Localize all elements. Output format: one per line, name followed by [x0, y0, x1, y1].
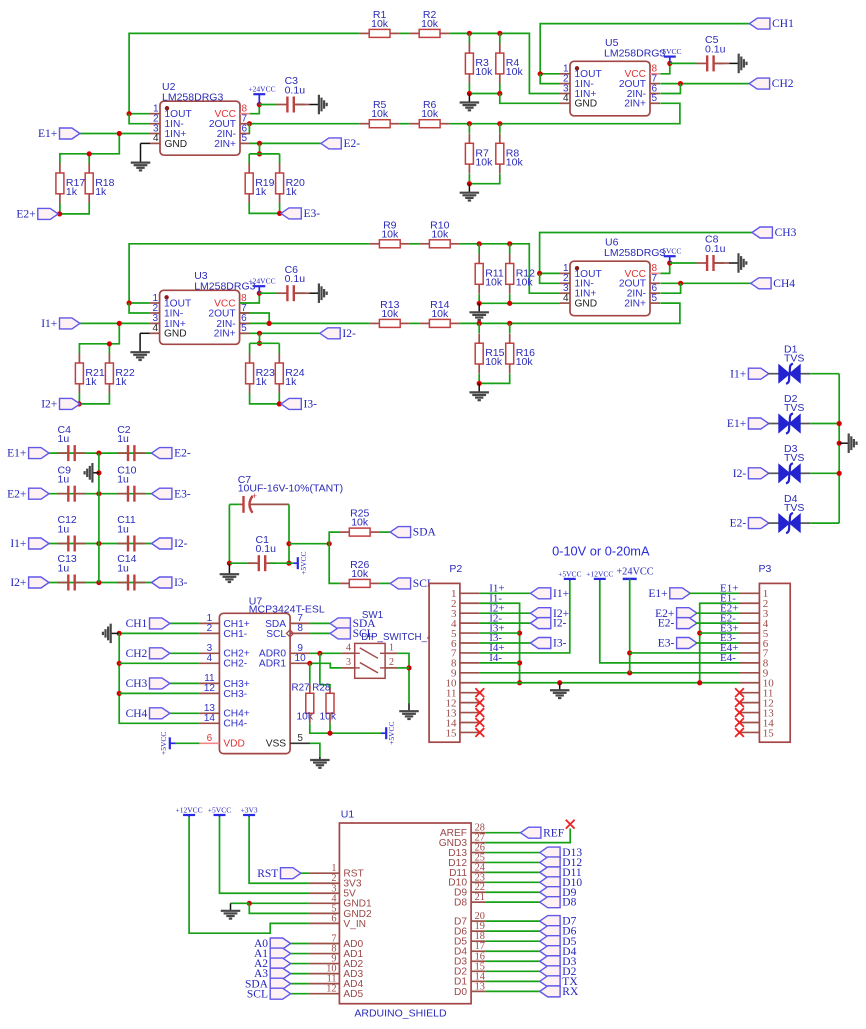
svg-text:VSS: VSS — [266, 739, 287, 750]
wire RST — [300, 872, 309, 874]
wire U5 2IN+ hook — [659, 102, 661, 104]
net flag RST — [281, 868, 301, 879]
pin 20 U1 — [471, 920, 485, 922]
pin 6 U1 — [309, 922, 340, 924]
wire — [450, 33, 560, 93]
net flag I2+ — [29, 577, 49, 588]
net flag I2- — [530, 618, 550, 629]
pin 3 U1 — [309, 892, 340, 894]
wire — [80, 322, 150, 324]
junction — [117, 131, 122, 136]
net flag I2- — [320, 328, 340, 339]
svg-text:RST: RST — [257, 868, 278, 880]
adc U7 — [219, 613, 290, 753]
resistor R24 — [278, 353, 280, 363]
no-connect X — [475, 718, 484, 727]
svg-text:1u: 1u — [117, 433, 129, 445]
svg-text:I3-: I3- — [304, 399, 318, 411]
ground — [478, 303, 480, 312]
net flag E1+ — [670, 588, 690, 599]
junction — [96, 541, 101, 546]
svg-text:I1+: I1+ — [41, 318, 57, 330]
wire cap block common — [98, 453, 100, 582]
svg-text:1u: 1u — [117, 474, 129, 486]
net flag CH1 — [750, 18, 770, 29]
pin 14 U1 — [471, 980, 485, 982]
wire — [469, 174, 499, 184]
wire — [468, 124, 470, 134]
pin 2 P3 — [740, 602, 759, 604]
resistor R20 — [279, 163, 281, 173]
svg-text:10: 10 — [295, 653, 307, 664]
supply +3V3 — [243, 814, 255, 816]
ground — [111, 632, 120, 634]
net flag D9 — [540, 887, 560, 898]
wire — [460, 303, 680, 323]
svg-text:1k: 1k — [255, 186, 267, 198]
wire +5VCC to pin3 — [220, 817, 309, 893]
capacitor C8 — [696, 262, 707, 264]
wire CH3 to U7 — [170, 682, 200, 684]
resistor R22 — [108, 353, 110, 363]
net flag I1+ — [60, 318, 80, 329]
svg-text:CH3-: CH3- — [223, 689, 247, 700]
svg-text:6: 6 — [207, 733, 213, 744]
wire SDA flag — [310, 622, 330, 624]
junction — [477, 241, 482, 246]
svg-text:4: 4 — [346, 643, 351, 654]
net flag I2- — [152, 538, 172, 549]
wire U2 output feedback — [129, 113, 150, 115]
wire CH2 to U7 — [170, 652, 200, 654]
svg-text:I1+: I1+ — [10, 538, 26, 550]
wire — [270, 562, 289, 564]
junction — [277, 401, 282, 406]
wire row10 P2-P3 — [480, 682, 740, 684]
op-amp U5 — [570, 61, 650, 116]
ground — [468, 184, 470, 193]
wire P2 pin5 — [480, 632, 520, 634]
wire R27 R28 bottoms to +5VCC — [310, 723, 381, 733]
wire — [485, 861, 540, 863]
svg-text:13: 13 — [475, 981, 485, 992]
wire — [450, 103, 680, 123]
junction — [96, 451, 101, 456]
junction — [107, 341, 112, 346]
junction — [87, 151, 92, 156]
svg-text:CH2: CH2 — [126, 648, 148, 660]
wire P2 pin2 vertical — [480, 603, 520, 683]
net flag RX — [540, 986, 560, 997]
net flag I3- — [152, 577, 172, 588]
net flag I2+ — [530, 608, 550, 619]
wire — [80, 133, 150, 135]
wire P2 pin1 — [480, 592, 531, 594]
wire — [400, 123, 410, 125]
wire — [768, 373, 778, 375]
svg-text:10k: 10k — [516, 356, 534, 368]
pin 7 P2 — [460, 652, 480, 654]
wire — [250, 342, 280, 344]
junction — [678, 81, 683, 86]
wire — [714, 62, 729, 64]
svg-text:7: 7 — [241, 303, 247, 314]
pin 2 U1 — [309, 882, 340, 884]
svg-text:10k: 10k — [371, 18, 389, 30]
ground — [408, 703, 410, 711]
svg-text:1k: 1k — [256, 376, 268, 388]
svg-text:+24VCC: +24VCC — [616, 566, 653, 577]
svg-text:10k: 10k — [485, 356, 503, 368]
svg-text:CH3: CH3 — [126, 678, 148, 690]
wire P2 pin4 — [480, 622, 531, 624]
junction — [467, 181, 472, 186]
junction — [538, 71, 543, 76]
junction — [327, 731, 332, 736]
no-connect X — [735, 728, 744, 737]
svg-text:DIP_SWITCH_4: DIP_SWITCH_4 — [361, 632, 433, 643]
pin 9 P2 — [460, 672, 480, 674]
svg-text:D0: D0 — [454, 987, 467, 998]
pin 22 U1 — [471, 891, 485, 893]
pin 11 P2 — [460, 692, 480, 694]
wire U3 GND pin to ground — [140, 332, 150, 334]
svg-text:1u: 1u — [117, 563, 129, 575]
junction — [537, 271, 542, 276]
wire — [469, 83, 499, 93]
svg-text:10k: 10k — [506, 66, 524, 78]
svg-text:V_IN: V_IN — [343, 919, 366, 930]
net flag E3- — [152, 488, 172, 499]
net flag I3- — [281, 398, 301, 409]
svg-text:4: 4 — [153, 323, 159, 334]
svg-text:MCP3424T-ESL: MCP3424T-ESL — [249, 604, 325, 616]
wire — [768, 472, 778, 474]
pin 25 U1 — [471, 861, 485, 863]
net flag E3- — [281, 208, 301, 219]
resistor R21 — [78, 353, 80, 363]
junction — [467, 91, 472, 96]
svg-text:1IN-: 1IN- — [164, 308, 183, 319]
wire R28 top — [320, 653, 330, 688]
svg-text:CH2-: CH2- — [223, 659, 247, 670]
net flag D8 — [540, 897, 560, 908]
net flag REF — [521, 827, 541, 838]
pin 24 U1 — [471, 871, 485, 873]
svg-text:P2: P2 — [449, 563, 462, 575]
net flag SCL — [270, 988, 290, 999]
ground — [729, 262, 739, 264]
wire — [258, 96, 260, 105]
wire — [294, 104, 309, 106]
svg-text:10k: 10k — [320, 712, 337, 723]
svg-text:+3V3: +3V3 — [241, 806, 258, 815]
wire — [290, 973, 309, 975]
pin 6 VDD — [199, 742, 219, 744]
net flag E2- — [748, 518, 768, 529]
resistor R26 — [340, 582, 350, 584]
svg-text:+5VCC: +5VCC — [558, 569, 581, 578]
junction — [557, 680, 562, 685]
pin 5 VSS — [290, 742, 310, 744]
wire — [249, 203, 279, 213]
svg-text:REF: REF — [543, 827, 564, 839]
svg-text:AD5: AD5 — [343, 989, 363, 1000]
svg-text:LM258DRG3: LM258DRG3 — [604, 247, 665, 259]
wire U2 VCC to +24VCC — [250, 105, 259, 114]
svg-text:+12VCC: +12VCC — [586, 569, 613, 578]
supply +5VCC — [564, 578, 576, 580]
junction — [467, 31, 472, 36]
svg-text:CH1-: CH1- — [223, 629, 247, 640]
svg-text:5: 5 — [297, 733, 303, 744]
net flag TX — [540, 976, 560, 987]
wire — [329, 544, 340, 584]
wire tie 1OUT to 1IN- — [129, 303, 150, 313]
svg-text:I2-: I2- — [553, 618, 567, 630]
pin 12 U1 — [309, 993, 340, 995]
svg-text:10k: 10k — [381, 308, 399, 320]
wire tie 1OUT to 1IN- — [129, 114, 150, 124]
supply +24VCC — [253, 285, 265, 287]
net flag SDA — [330, 618, 350, 629]
supply +5VCC — [297, 557, 299, 569]
svg-text:TVS: TVS — [784, 352, 804, 364]
svg-text:CH1: CH1 — [126, 618, 148, 630]
no-connect X — [475, 728, 484, 737]
svg-text:+5VCC: +5VCC — [159, 732, 168, 755]
wire — [696, 642, 740, 644]
svg-text:10k: 10k — [475, 156, 493, 168]
svg-text:ADR1: ADR1 — [259, 659, 287, 670]
junction — [257, 331, 262, 336]
wire — [48, 493, 151, 495]
svg-text:1k: 1k — [95, 186, 107, 198]
wire — [290, 943, 309, 945]
wire — [485, 990, 540, 992]
pin 9 P3 — [740, 672, 759, 674]
svg-text:D8: D8 — [562, 897, 576, 909]
pin 1 U1 — [309, 872, 340, 874]
svg-text:10k: 10k — [516, 277, 534, 289]
junction — [477, 321, 482, 326]
wire tie — [540, 273, 560, 283]
wire SCL flag — [310, 632, 330, 634]
pin 7 U1 — [309, 943, 340, 945]
svg-text:+5VCC: +5VCC — [658, 47, 681, 56]
svg-text:3: 3 — [346, 657, 351, 668]
svg-text:I3-: I3- — [553, 638, 567, 650]
capacitor C4 — [58, 452, 69, 454]
wire — [60, 134, 119, 165]
junction — [77, 401, 82, 406]
svg-text:2OUT: 2OUT — [208, 308, 235, 319]
supply +12VCC — [183, 814, 195, 816]
pin 3 P3 — [740, 612, 759, 614]
wire — [400, 32, 410, 34]
capacitor C2 — [117, 452, 128, 454]
svg-text:15: 15 — [763, 727, 775, 739]
svg-text:2: 2 — [207, 623, 213, 634]
resistor R3 — [468, 44, 470, 54]
wire GND3 — [485, 829, 570, 843]
wire — [485, 930, 540, 932]
junction — [117, 631, 122, 636]
net flag D12 — [540, 857, 560, 868]
wire U6 VCC to +5VCC — [660, 263, 669, 273]
capacitor C3 — [277, 104, 288, 106]
pin 10 P2 — [460, 682, 480, 684]
resistor R1 — [360, 32, 370, 34]
svg-text:4: 4 — [207, 653, 213, 664]
svg-text:2IN+: 2IN+ — [214, 139, 236, 150]
pin 5 U1 — [309, 912, 340, 914]
svg-text:1u: 1u — [58, 524, 70, 536]
svg-text:1u: 1u — [58, 474, 70, 486]
net flag I1+ — [748, 368, 768, 379]
wire — [696, 622, 740, 624]
wire — [485, 970, 540, 972]
wire — [460, 244, 560, 293]
svg-text:LM258DRG3: LM258DRG3 — [604, 48, 665, 60]
junction — [96, 470, 101, 475]
svg-text:CH3: CH3 — [775, 227, 797, 239]
svg-text:1k: 1k — [66, 186, 78, 198]
junction — [257, 291, 262, 296]
wire R27 top — [309, 663, 311, 683]
net flag I1+ — [29, 538, 49, 549]
svg-text:GND: GND — [165, 139, 188, 150]
pin 23 U1 — [471, 881, 485, 883]
junction — [277, 211, 282, 216]
svg-text:6: 6 — [331, 913, 336, 924]
pin 8 P2 — [460, 662, 480, 664]
wire CH1 to U7 — [170, 622, 200, 624]
svg-text:10k: 10k — [371, 108, 389, 120]
op-amp U6 — [570, 261, 650, 316]
wire CH4 to U7 — [170, 712, 200, 714]
svg-text:E2-: E2- — [344, 138, 361, 150]
net flag A3 — [270, 968, 290, 979]
pin 21 U1 — [471, 901, 485, 903]
wire P2 pin7 to +5VCC — [480, 581, 570, 653]
net flag I3- — [530, 638, 550, 649]
junction — [678, 281, 683, 286]
resistor R11 — [478, 254, 480, 264]
svg-text:1: 1 — [389, 643, 394, 654]
wire — [119, 633, 199, 723]
net flag E2+ — [677, 608, 697, 619]
ground — [309, 292, 319, 294]
wire — [60, 203, 89, 214]
wire — [485, 980, 540, 982]
wire +12VCC to P3 pin8 — [600, 581, 740, 663]
capacitor C6 — [277, 292, 288, 294]
pin 17 U1 — [471, 950, 485, 952]
svg-text:+: + — [252, 491, 257, 501]
op-amp U2 — [160, 101, 240, 155]
pin 2 P2 — [460, 602, 480, 604]
wire — [290, 983, 309, 985]
ground — [92, 472, 99, 474]
SCL clock marker — [287, 630, 294, 637]
wire tie — [660, 84, 680, 94]
capacitor C5 — [696, 62, 707, 64]
wire U2 GND pin to ground — [141, 142, 151, 144]
svg-text:0.1u: 0.1u — [256, 543, 277, 555]
wire — [485, 920, 540, 922]
net flag D6 — [540, 926, 560, 937]
pin 11 U1 — [309, 983, 340, 985]
junction — [667, 260, 672, 265]
wire E2- to 2IN+ — [250, 142, 321, 144]
svg-text:E1+: E1+ — [7, 448, 26, 460]
svg-text:P3: P3 — [759, 563, 772, 575]
wire P2 pin3 — [480, 612, 531, 614]
wire — [294, 292, 309, 294]
svg-text:E1+: E1+ — [727, 418, 746, 430]
net flag E1+ — [748, 418, 768, 429]
svg-text:4: 4 — [563, 293, 569, 304]
no-connect X — [475, 708, 484, 717]
wire — [398, 667, 409, 669]
wire row9 P2-P3 — [480, 672, 740, 674]
ground — [839, 442, 849, 444]
pin 12 P3 — [740, 702, 759, 704]
wire — [229, 562, 254, 564]
junction — [267, 321, 272, 326]
pin 8 P3 — [740, 662, 759, 664]
wire I2- to 2IN+ — [240, 332, 320, 334]
wire — [630, 652, 740, 654]
wire P2 pin6 — [480, 642, 531, 644]
junction — [837, 421, 842, 426]
svg-text:SW1: SW1 — [362, 610, 383, 621]
svg-text:E3-: E3- — [174, 488, 191, 500]
wire — [485, 950, 540, 952]
wire U3 2OUT to 2IN- and R13 row — [240, 313, 270, 323]
diode D2 TVS — [779, 415, 790, 433]
wire AREF to REF — [485, 832, 520, 834]
resistor R12 — [509, 254, 511, 264]
net flag CH2 — [749, 78, 769, 89]
svg-text:10k: 10k — [506, 156, 524, 168]
wire — [468, 33, 470, 43]
junction — [117, 321, 122, 326]
pin 15 P2 — [460, 731, 480, 733]
resistor R27 — [309, 683, 311, 693]
pin 28 U1 — [471, 832, 485, 834]
wire — [119, 662, 199, 664]
net flag E2+ — [29, 488, 49, 499]
pin 4 U1 — [309, 902, 340, 904]
svg-text:2: 2 — [153, 303, 159, 314]
junction — [307, 661, 312, 666]
net flag CH3 — [752, 227, 772, 238]
wire to U5 GND pin — [500, 94, 560, 104]
wire +24VCC to P3 pin7 and row9 — [629, 579, 631, 673]
pin 14 P2 — [460, 722, 480, 724]
svg-text:1k: 1k — [85, 376, 97, 388]
pin 19 U1 — [471, 930, 485, 932]
junction — [327, 541, 332, 546]
supply +24VCC — [253, 93, 265, 95]
wire — [290, 953, 309, 955]
ground — [729, 62, 739, 64]
wire — [485, 901, 540, 903]
svg-text:TVS: TVS — [784, 452, 804, 464]
svg-text:E2-: E2- — [730, 518, 747, 530]
